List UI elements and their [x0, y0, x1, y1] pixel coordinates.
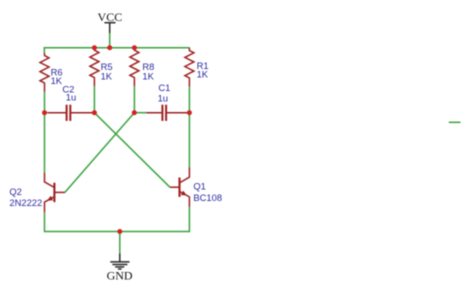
svg-text:1K: 1K [101, 70, 113, 81]
svg-text:1u: 1u [158, 93, 168, 104]
svg-text:2N2222: 2N2222 [9, 197, 42, 208]
svg-text:BC108: BC108 [193, 192, 222, 203]
svg-text:Q2: Q2 [9, 186, 22, 197]
svg-text:VCC: VCC [98, 10, 123, 24]
svg-text:1K: 1K [142, 70, 154, 81]
svg-text:1K: 1K [51, 75, 63, 86]
svg-text:1K: 1K [197, 68, 209, 79]
svg-text:1u: 1u [66, 91, 76, 102]
svg-text:Q1: Q1 [193, 180, 206, 191]
svg-text:GND: GND [107, 268, 133, 282]
svg-text:C1: C1 [158, 82, 170, 93]
